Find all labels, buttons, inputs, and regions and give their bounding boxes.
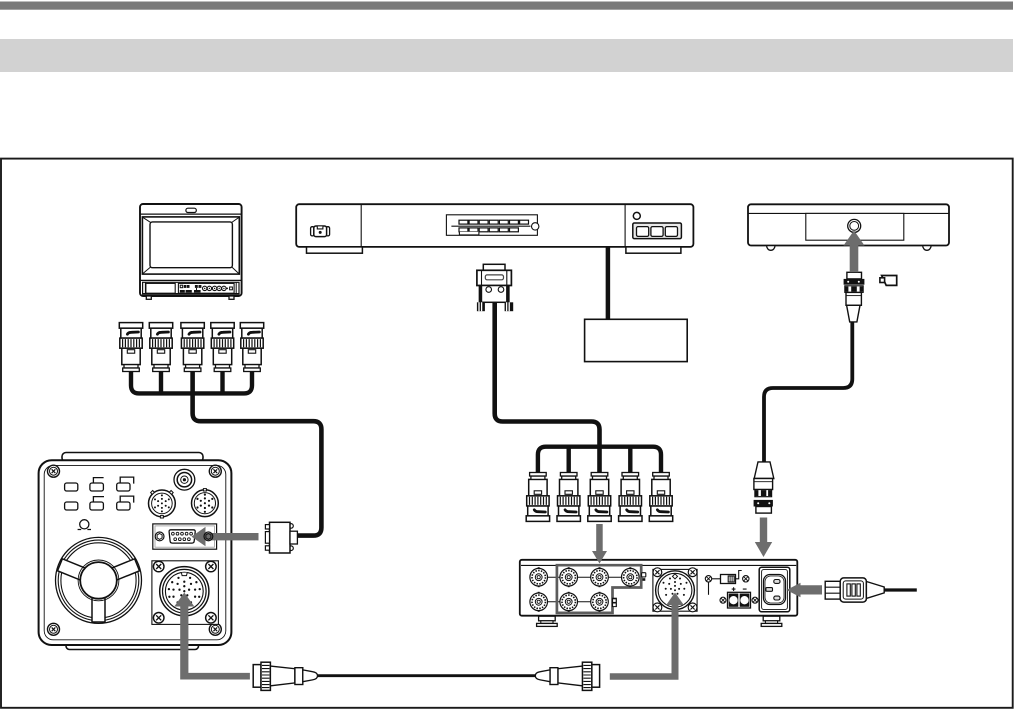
CCU video BNC jack 4 <box>560 592 578 612</box>
arrow into CCU video inputs <box>592 524 607 564</box>
wire: camera cable link <box>317 674 536 677</box>
antenna adapter icon <box>880 276 897 286</box>
CCU jack mini icon <box>642 573 646 581</box>
CCU video BNC jack 2 <box>591 567 609 587</box>
top header bar <box>0 2 1013 10</box>
CCU rear panel <box>520 560 798 627</box>
section heading band <box>0 39 1013 72</box>
wire: monitor BNC bundle bus <box>131 369 252 393</box>
camera corner screw TR <box>209 465 221 477</box>
camera head rear panel <box>39 453 232 650</box>
camera genlock connector <box>174 469 195 490</box>
CCU AC inlet <box>759 567 790 612</box>
CCU BNC connector 1 <box>526 473 549 522</box>
wire: monitor cable to camera remote <box>193 369 322 535</box>
camera cable connector panel <box>152 561 219 625</box>
monitor BNC connector 1 <box>119 323 142 372</box>
CCU video BNC jack 1 <box>560 567 578 587</box>
monitor BNC connector 4 <box>211 323 234 372</box>
remote cable connector plug <box>265 522 297 553</box>
camera cable panel screw TR <box>206 561 217 572</box>
CCU multipin camera connector <box>656 571 695 610</box>
tuner RF jack <box>848 219 861 232</box>
CCU monitor-out BNC jack 1 <box>530 567 548 587</box>
CCU BNC connector 3 <box>588 473 611 522</box>
camera corner screw TL <box>48 465 60 477</box>
camera cable panel screw BL <box>153 613 164 624</box>
VTR display window <box>446 215 539 236</box>
RF tuner unit <box>748 204 949 250</box>
wire: RF cable from tuner to CCU <box>764 321 852 462</box>
camera cable panel screw TL <box>153 561 164 572</box>
arrow into camera remote connector <box>192 527 259 546</box>
camera menu buttons <box>65 477 134 510</box>
RF connector plug (up, into tuner) <box>844 272 865 322</box>
VTR channel buttons <box>633 212 682 238</box>
camera fan grille <box>56 537 142 623</box>
monitor BNC connector 5 <box>240 323 263 372</box>
monitor BNC connector 2 <box>149 323 172 372</box>
CCU BNC connector 5 <box>649 473 672 522</box>
CCU video BNC jack 5 <box>591 592 609 612</box>
camera multipin cable connector <box>160 567 209 616</box>
CCU video BNC jack 3 <box>622 567 640 587</box>
arrow onto CCU from RF cable <box>755 518 772 558</box>
CCU BNC connector 4 <box>619 473 642 522</box>
camera cable panel screw BR <box>206 613 217 624</box>
camera cable connector (camera side) <box>253 662 317 690</box>
diagram frame <box>1 159 1013 708</box>
camera cable with arrow into CCU multipin <box>610 593 684 680</box>
camera remote D-sub panel <box>153 524 217 549</box>
camera viewfinder connector <box>192 489 219 517</box>
9-pin D-sub connector on VTR cable <box>477 264 513 311</box>
CCU camera connector panel <box>653 569 697 611</box>
camera cable with arrow into camera multipin <box>174 593 250 680</box>
video monitor <box>140 204 242 299</box>
CCU jack link lines <box>548 577 622 602</box>
CCU highlighted jack group outline <box>557 565 641 613</box>
callout box <box>585 319 688 361</box>
camera remote panel right screw <box>204 532 213 541</box>
CCU fuse holder <box>705 571 749 595</box>
wire: CCU BNC bundle bus <box>538 447 661 473</box>
monitor BNC connector 3 <box>181 323 204 372</box>
RF connector plug (down, to CCU) <box>754 462 774 513</box>
CCU panel screw TL <box>653 568 662 577</box>
CCU panel screw BR <box>688 603 697 612</box>
wire: VTR drop cable to callout box <box>606 246 611 321</box>
CCU BNC connector 2 <box>557 473 580 522</box>
camera lens connector <box>149 490 176 518</box>
wire: D-sub cable to CCU BNC bundle <box>495 303 600 473</box>
CCU panel screw TR <box>688 568 697 577</box>
camera cable connector (CCU side) <box>535 662 599 690</box>
camera corner screw BL <box>48 623 60 635</box>
arrow into CCU AC inlet <box>787 583 823 598</box>
CCU monitor-out BNC jack 2 <box>530 592 548 612</box>
CCU switch mini icon <box>612 598 617 607</box>
VTR (video deck) <box>296 204 693 253</box>
CCU DC terminal block <box>720 587 758 608</box>
VTR cassette icon <box>311 226 330 237</box>
AC power cord plug <box>825 578 917 602</box>
CCU panel screw BL <box>653 603 662 612</box>
arrow up into tuner RF jack <box>844 231 865 273</box>
camera corner screw BR <box>209 623 221 635</box>
camera tally lamp icon <box>78 520 91 530</box>
